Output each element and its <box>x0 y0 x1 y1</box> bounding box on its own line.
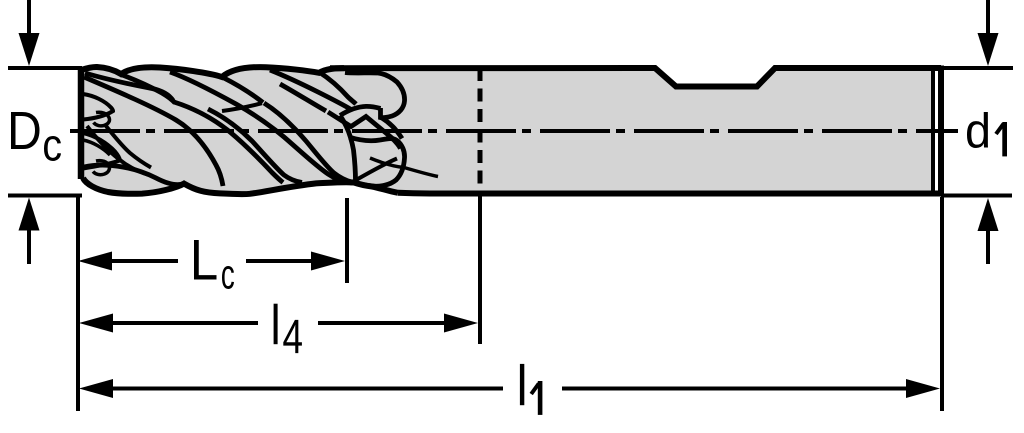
upper beak curl <box>94 112 110 126</box>
solid extension below x=480 <box>478 194 482 344</box>
tool body fill <box>81 67 932 194</box>
flute P1.5 parallel <box>208 109 302 183</box>
upper runout lobe <box>345 73 405 118</box>
flute cusp-121 descent to W0 <box>121 75 175 104</box>
bottom-left fan line 1 <box>87 126 150 175</box>
flute section left face <box>78 67 85 179</box>
l4 dimension line <box>113 321 258 325</box>
flute S3 from W1 <box>264 103 353 183</box>
left extension line below tool <box>76 197 80 411</box>
flute A1 shallow to lobe step <box>270 70 352 110</box>
bottom-left extension line <box>8 194 82 198</box>
shank right end outer line <box>938 66 944 197</box>
lower lobe inner diagonal up <box>356 159 397 181</box>
lightning Z <box>328 112 401 149</box>
flute plunge to knot <box>340 116 356 182</box>
shank bottom edge <box>398 190 941 197</box>
l1 right extension line <box>940 197 944 411</box>
flute lens A <box>170 72 352 183</box>
flute corner shallow line to wedge W0 <box>85 73 173 101</box>
lower beak curl <box>93 161 109 175</box>
lower beak <box>83 133 120 169</box>
upper lobe bottom-right continuation <box>381 118 402 139</box>
flute S1 corner steep line <box>84 77 223 186</box>
flute cusp-222 descent <box>222 77 263 103</box>
centerline dash-dot <box>70 129 958 133</box>
top-left arrow (down) <box>27 0 31 34</box>
lower runout lobe <box>349 137 405 186</box>
bottom-right extension line <box>941 194 1012 198</box>
top-right extension line <box>941 66 1013 70</box>
dashed line at l4 x=480 <box>478 68 483 194</box>
Lc dimension line <box>112 259 178 263</box>
flute W0 continuation P1 <box>174 102 283 183</box>
lower lobe inner diagonal down with tail <box>370 158 438 177</box>
label Dc <box>11 112 39 149</box>
label l1 <box>520 364 524 405</box>
top-right arrow (down) <box>986 0 990 34</box>
flute cusp-319 descent <box>319 72 356 104</box>
bottom-left fan line 2 <box>106 126 151 168</box>
label Lc <box>194 240 217 279</box>
bottom-left arrow (up) <box>27 230 31 264</box>
label l4 <box>274 304 278 345</box>
bottom-left leaf lobe top edge <box>84 165 184 185</box>
upper lobe step <box>340 106 381 115</box>
bottom-right arrow (up) <box>986 230 990 264</box>
flute top wavy silhouette <box>81 67 344 77</box>
top-left extension line <box>8 66 82 70</box>
flute wedge bridge W1 <box>222 103 262 111</box>
flute bottom wavy silhouette <box>83 178 398 194</box>
shank right end inner line <box>931 70 935 192</box>
flute B1 shallow to Z start <box>280 84 326 111</box>
lower beak inner line <box>83 140 110 155</box>
shank top edge with notch <box>330 68 941 87</box>
upper beak <box>83 94 113 120</box>
label d1 <box>967 112 988 148</box>
Lc right extension line <box>345 198 349 283</box>
l1 dimension line <box>113 387 503 391</box>
